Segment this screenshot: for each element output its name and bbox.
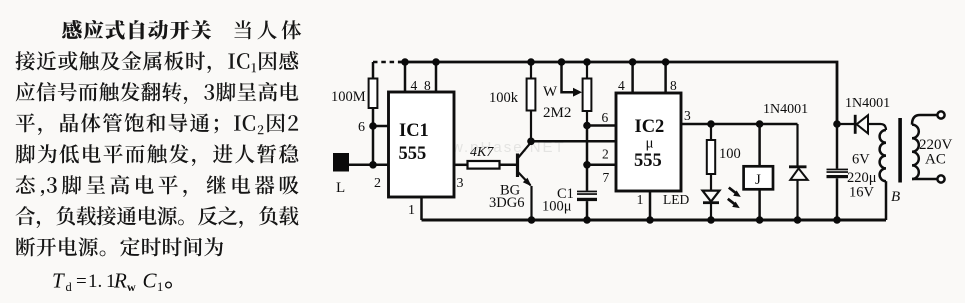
node dot rail/pin4 — [401, 58, 409, 66]
wiper arrowhead — [573, 88, 582, 97]
flyback diode 1N4001 (vertical) — [789, 124, 808, 220]
wire: relay bottom — [758, 189, 761, 220]
wire: IC1 pin 1 to bottom rail — [420, 197, 423, 220]
wire: 4K7 to base — [500, 164, 518, 167]
node dot rail/IC2 pin8 — [662, 58, 670, 66]
node dot IC2 pin1/rail — [646, 216, 654, 224]
svg-text:1.: 1. — [88, 271, 102, 292]
wire: IC2 pin 8 to rail — [664, 62, 667, 93]
node dot relay/rail — [756, 216, 764, 224]
transformer core — [898, 118, 902, 183]
svg-text:IC2: IC2 — [635, 117, 665, 137]
svg-text:1: 1 — [157, 280, 163, 294]
svg-text:555: 555 — [399, 144, 427, 164]
wire: +V top rail (dashed section then solid) — [373, 62, 837, 124]
wire: primary bottom to terminal — [912, 178, 937, 181]
wire: collector node to IC2 pin 2 — [531, 140, 616, 143]
svg-text:T: T — [52, 269, 65, 293]
wire: secondary bottom to rail — [885, 181, 888, 220]
svg-text:7: 7 — [603, 170, 610, 185]
node dot rail/pin8 — [432, 58, 440, 66]
svg-text:3: 3 — [457, 176, 464, 191]
svg-text:1N4001: 1N4001 — [845, 96, 890, 111]
node dot rail/pot top — [583, 58, 591, 66]
node dot pin3 rail/100 — [707, 120, 715, 128]
wire: node to IC2 pin 6 — [587, 124, 616, 127]
svg-text:2: 2 — [374, 176, 381, 191]
svg-text:6: 6 — [358, 120, 365, 135]
svg-text:d: d — [66, 280, 73, 294]
svg-text:LED: LED — [663, 192, 689, 207]
svg-text:L: L — [336, 180, 345, 196]
svg-text:2: 2 — [602, 147, 609, 162]
svg-text:R: R — [113, 269, 127, 293]
node dot rail/100k — [527, 58, 535, 66]
transistor emitter arrowhead — [523, 178, 532, 186]
transformer B primary winding — [912, 125, 919, 179]
resistor 100k — [527, 62, 536, 141]
svg-text:B: B — [891, 189, 900, 205]
node dot: emitter at bottom rail — [528, 216, 536, 224]
wire: IC1 pin 8 to rail — [435, 62, 438, 92]
svg-text:4K7: 4K7 — [470, 145, 494, 160]
node dot cap/rail — [833, 216, 841, 224]
wire: plate L to IC1 pin2 — [349, 164, 389, 167]
wire: IC1 pin 4 to rail — [404, 62, 407, 92]
node dot rail/wiper — [558, 58, 566, 66]
sensor plate L — [333, 153, 349, 172]
transistor BG 3DG6 (NPN) — [518, 142, 532, 220]
node dot pin3 rail/relay — [756, 120, 764, 128]
timer IC2 555 box — [616, 93, 681, 191]
LED diode symbol — [703, 191, 720, 220]
resistor 100M — [369, 62, 378, 166]
rectifier diode 1N4001 (horizontal) — [837, 115, 886, 134]
op-amp/timer IC1 555 box — [389, 92, 455, 197]
svg-text:IC1: IC1 — [399, 121, 429, 141]
node dot pot bottom / pin6 — [583, 122, 591, 130]
LED emission arrows — [728, 188, 736, 204]
potentiometer wiper wire from rail — [562, 62, 578, 92]
node dot: pin2/plate junction — [369, 161, 377, 169]
svg-text:16V: 16V — [849, 185, 875, 201]
svg-text:4: 4 — [411, 78, 418, 93]
svg-text:1N4001: 1N4001 — [763, 102, 808, 117]
node dot supply junction — [833, 120, 841, 128]
svg-text:100μ: 100μ — [542, 199, 572, 215]
svg-text:3: 3 — [684, 108, 691, 123]
potentiometer W 2M2 body — [583, 62, 592, 126]
capacitor C1 100u (electrolytic) — [577, 191, 597, 202]
wire: timing node down — [586, 126, 589, 191]
svg-text:8: 8 — [670, 78, 677, 93]
svg-text:3DG6: 3DG6 — [489, 195, 524, 211]
svg-text:100M: 100M — [331, 89, 366, 105]
node dot collector/100k — [527, 138, 535, 146]
wire: C1 to bottom rail — [586, 201, 589, 220]
svg-text:100k: 100k — [489, 90, 519, 106]
svg-text:1: 1 — [637, 193, 644, 208]
svg-text:μ: μ — [646, 136, 654, 152]
svg-text:W: W — [543, 84, 558, 100]
svg-text:2M2: 2M2 — [543, 105, 571, 121]
svg-text:4: 4 — [618, 78, 625, 93]
svg-text:J: J — [755, 172, 761, 188]
node dot LED/rail — [707, 216, 715, 224]
capacitor 220u 16V (electrolytic) — [827, 169, 849, 179]
relay J box — [744, 166, 773, 189]
node dot pin7/C1 — [583, 161, 591, 169]
wires: cap to node and rail — [836, 124, 839, 220]
wire: IC2 pin 1 to bottom rail — [649, 191, 652, 220]
svg-text:555: 555 — [634, 151, 662, 171]
wire: IC2 pin 3 output rail — [681, 123, 798, 126]
wire: primary top to terminal — [912, 115, 937, 125]
resistor 4K7 — [468, 161, 500, 169]
wire: bottom (ground/return) rail — [422, 219, 887, 222]
terminal circle top (220V AC) — [937, 111, 944, 118]
svg-text:1: 1 — [408, 203, 415, 218]
svg-text:100: 100 — [719, 146, 741, 162]
node dot rail/IC2 pin4 — [629, 58, 637, 66]
wire: node to IC2 pin 7 — [587, 164, 616, 167]
wire: IC1 pin 3 out — [454, 164, 468, 167]
svg-text:=: = — [76, 271, 87, 292]
wire: IC2 pin 4 to rail — [631, 62, 634, 93]
terminal circle bottom (220V AC) — [937, 175, 944, 182]
node dot flyback/rail — [794, 216, 802, 224]
node dot C1/rail — [583, 216, 591, 224]
svg-text:6: 6 — [602, 110, 609, 125]
svg-text:6V: 6V — [852, 152, 870, 168]
node dot: 100M/pin6 junction — [369, 122, 377, 130]
svg-text:8: 8 — [424, 78, 431, 93]
svg-text:C: C — [143, 269, 158, 293]
transformer B secondary winding — [880, 130, 886, 181]
svg-text:w: w — [127, 280, 136, 294]
svg-text:AC: AC — [925, 152, 946, 168]
resistor 100 — [707, 124, 715, 190]
formula Td = 1.1 Rw C1 — [52, 269, 163, 295]
wire: 100M node to pin 6 of IC1 — [373, 125, 389, 128]
wire: relay top — [758, 124, 761, 166]
